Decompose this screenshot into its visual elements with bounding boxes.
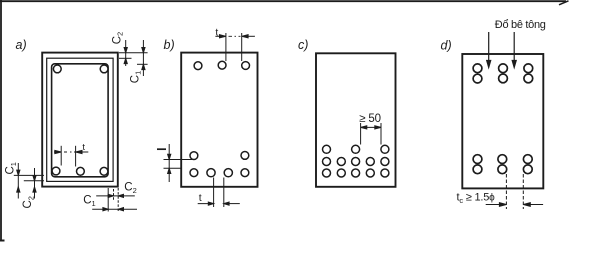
section d: top bar pair 3: [524, 64, 533, 73]
top border line with arrow: [0, 1, 569, 5]
section a: dimension C2 top: [124, 40, 127, 66]
section a: top rebar left: [53, 65, 61, 73]
section b: concrete outline: [181, 53, 257, 187]
svg-text:b): b): [164, 38, 175, 52]
section a: dimension C1 top: [142, 40, 145, 76]
section a: dimension t between bottom bars: [54, 146, 88, 167]
svg-text:t: t: [82, 142, 85, 153]
svg-text:Đổ bê tông: Đổ bê tông: [495, 19, 546, 31]
section a: top rebar right: [100, 65, 108, 73]
section d: bottom bar pair 2: [498, 155, 507, 164]
section c: dimension >=50: [361, 123, 381, 145]
section d: pour arrow right: [512, 32, 516, 68]
section c: concrete outline: [316, 53, 396, 187]
section b: dimension t top: [215, 33, 255, 61]
section a: left extension lines: [14, 175, 44, 180]
section a: bottom rebar middle: [77, 167, 85, 175]
section a: dimension C1 left: [17, 163, 20, 199]
section a: stirrup: [52, 64, 109, 177]
section d: top bar pair 2: [499, 64, 508, 73]
section c: rebar bundle row 1: [323, 145, 331, 153]
section a: dimension C1 bottom: [92, 208, 137, 211]
section b: bottom upper rebar row: [190, 152, 198, 160]
section d: pour arrow left: [487, 32, 491, 68]
section b: dimension t left: [164, 144, 193, 182]
svg-text:c): c): [298, 38, 308, 52]
section a: top-right extension lines: [119, 53, 148, 65]
section d: concrete outline: [462, 54, 543, 188]
section b: top rebar row: [194, 62, 202, 70]
section a: concrete outline: [42, 53, 118, 187]
section c: rebar bundle row 2: [323, 158, 331, 166]
section d: dimension tc >= 1.5 phi: [486, 174, 543, 209]
section a: dimension C2 left: [33, 168, 36, 199]
svg-text:t: t: [199, 192, 202, 204]
svg-text:d): d): [441, 39, 452, 53]
section d: bottom bar pair 1: [473, 155, 482, 164]
section c: rebar bundle row 3: [323, 169, 331, 177]
section d: bottom bar pair 3: [523, 155, 532, 164]
section b: dimension t bottom: [198, 178, 240, 208]
section b: bottom lower rebar row: [190, 169, 198, 177]
left border line: [0, 0, 5, 241]
section a: cover line (middle rect): [47, 58, 113, 181]
svg-text:≥ 50: ≥ 50: [359, 113, 381, 125]
svg-text:a): a): [16, 38, 27, 52]
svg-text:t: t: [215, 26, 218, 38]
section a: dimension C2 bottom: [96, 194, 135, 197]
section a: bottom-right extension lines: [108, 188, 118, 212]
section a: bottom rebar right: [100, 167, 108, 175]
section d: top bar pair 1: [473, 64, 482, 73]
svg-text:tc ≥ 1.5ϕ: tc ≥ 1.5ϕ: [457, 192, 496, 205]
section a: bottom rebar left: [52, 167, 60, 175]
